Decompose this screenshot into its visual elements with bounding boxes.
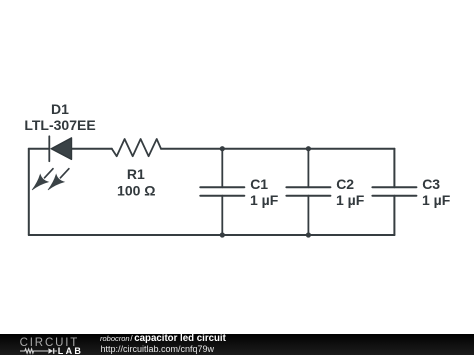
wire top rail resistor to right [161,148,394,150]
logo LAB text [58,347,83,355]
wire LED anode lead [29,148,50,150]
svg-text:100 Ω: 100 Ω [117,182,155,198]
logo CIRCUIT text [20,339,80,348]
svg-text:1 µF: 1 µF [422,192,451,208]
svg-text:C1: C1 [250,176,268,192]
svg-text:C2: C2 [336,176,354,192]
wire right rail upper [393,149,395,188]
capacitor C3 [372,187,416,195]
resistor R1 zigzag [112,139,161,156]
logo diode [48,348,53,354]
footer line 1 [100,335,226,343]
wire right rail lower [393,196,395,235]
junction top C1 [220,146,225,151]
svg-text:1 µF: 1 µF [336,192,365,208]
capacitor C1 [200,149,244,235]
svg-text:D1: D1 [51,101,69,117]
wire bottom rail [29,234,395,236]
junction top C2 [306,146,311,151]
wire LED to resistor [72,148,112,150]
junction bottom C1 [220,232,225,237]
diode D1 LTL-307EE (LED) [32,136,72,190]
footer line 2 [101,345,215,353]
footer bar [0,334,474,356]
logo resistor zigzag [20,349,48,353]
svg-text:C3: C3 [422,176,440,192]
capacitor C2 [286,149,330,235]
svg-text:LTL-307EE: LTL-307EE [24,117,95,133]
wire left rail [28,149,30,235]
svg-text:1 µF: 1 µF [250,192,279,208]
svg-text:R1: R1 [127,166,145,182]
junction bottom C2 [306,232,311,237]
logo symbol row [20,347,58,355]
